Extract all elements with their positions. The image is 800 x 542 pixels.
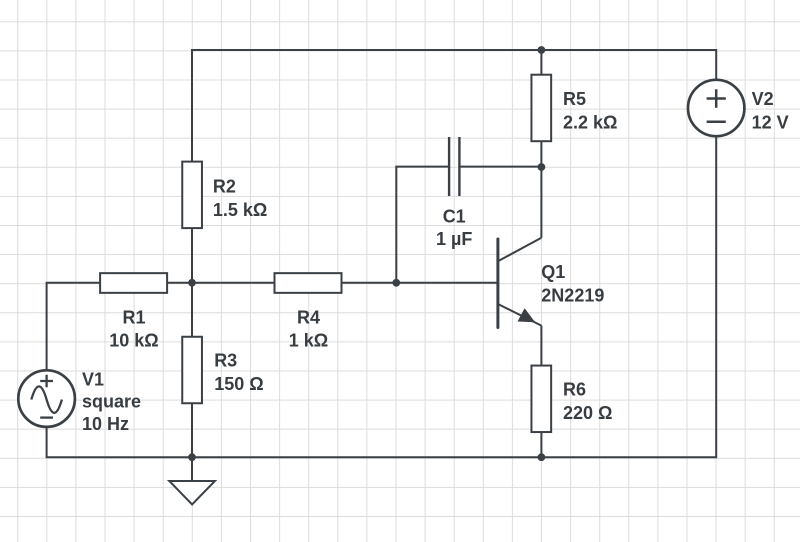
node junction ground [188, 453, 196, 461]
svg-text:Q1: Q1 [541, 262, 565, 282]
resistor R2 [182, 162, 267, 229]
node junction R1/R2/R3/R4 [188, 279, 196, 287]
wire R4 to base [342, 282, 498, 284]
wire C1 left branch [396, 167, 448, 283]
svg-text:10 kΩ: 10 kΩ [109, 331, 158, 351]
wire bottom rail with V1 and V2 bottom leads [47, 137, 717, 457]
voltage source V2 [688, 80, 789, 136]
svg-text:150 Ω: 150 Ω [214, 374, 263, 394]
resistor R6 [531, 366, 612, 433]
svg-text:1 kΩ: 1 kΩ [289, 331, 328, 351]
svg-text:R2: R2 [213, 176, 236, 196]
svg-text:10 Hz: 10 Hz [82, 414, 129, 434]
wire R2 bottom lead [191, 229, 193, 283]
resistor R1 [100, 273, 167, 350]
wire R1 to node B [168, 282, 192, 284]
wire top rail with R2 and V2 top leads [192, 50, 716, 161]
wire V1 top lead to R1 [47, 283, 100, 369]
wire node B to R4 [192, 282, 274, 284]
svg-text:2N2219: 2N2219 [541, 286, 604, 306]
svg-text:R6: R6 [563, 380, 586, 400]
svg-text:R4: R4 [297, 308, 320, 328]
svg-text:C1: C1 [443, 206, 466, 226]
svg-text:V2: V2 [752, 89, 774, 109]
resistor R3 [182, 337, 263, 404]
voltage source V1 [18, 369, 141, 434]
transistor Q1 [498, 238, 604, 328]
wire R6 bottom lead [540, 433, 542, 457]
node junction top R5 [538, 46, 546, 54]
svg-text:220 Ω: 220 Ω [563, 403, 612, 423]
svg-text:V1: V1 [82, 369, 104, 389]
svg-text:R5: R5 [563, 89, 586, 109]
resistor R4 [275, 273, 342, 350]
wire C1 right to collector node [461, 166, 542, 168]
svg-text:1.5 kΩ: 1.5 kΩ [213, 200, 267, 220]
wire emitter vertical [540, 326, 542, 365]
node junction collector/C1 [538, 163, 546, 171]
svg-text:R3: R3 [214, 351, 237, 371]
svg-text:1 µF: 1 µF [436, 229, 472, 249]
wire R5 top lead [540, 50, 542, 74]
wire R3 bottom lead [191, 404, 193, 457]
svg-text:12 V: 12 V [752, 113, 789, 133]
node junction C1 branch/base wire [392, 279, 400, 287]
resistor R5 [531, 75, 617, 142]
svg-text:square: square [82, 392, 141, 412]
svg-text:R1: R1 [122, 308, 145, 328]
wire R5 bottom lead to collector [540, 142, 542, 238]
svg-text:2.2 kΩ: 2.2 kΩ [563, 113, 617, 133]
node junction R6/bottom rail [538, 453, 546, 461]
capacitor C1 [436, 137, 472, 249]
ground [169, 457, 215, 504]
wire R3 top lead [191, 283, 193, 336]
